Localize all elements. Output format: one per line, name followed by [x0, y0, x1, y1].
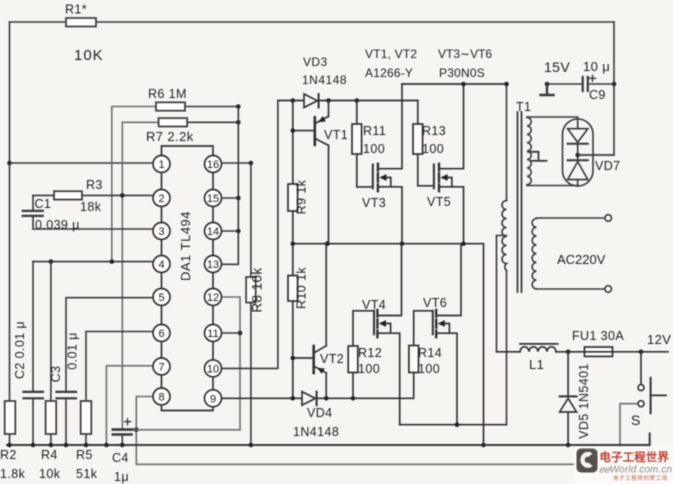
- wire pin 4 row: [33, 261, 153, 263]
- wire top rail from R1 to +15V corner: [10, 21, 615, 23]
- pin 9: [205, 390, 222, 407]
- wire primary center tap to L1: [497, 236, 507, 352]
- node rail VT3VT4: [400, 241, 405, 246]
- svg-text:100: 100: [422, 142, 444, 156]
- transformer T1 core: [518, 112, 522, 292]
- svg-text:14: 14: [207, 226, 219, 238]
- node VD7 center: [575, 153, 580, 158]
- transistor VT1: [313, 117, 316, 145]
- svg-text:电子工程师的梦工场: 电子工程师的梦工场: [613, 474, 668, 482]
- node switch branch: [639, 350, 644, 355]
- ground bus: [7, 434, 650, 446]
- node R4 top: [49, 259, 54, 264]
- wire R3 left lead: [33, 194, 54, 196]
- IC top outline: [162, 146, 214, 156]
- node VT2 emitter: [324, 396, 329, 401]
- wire VD4 row from pin 9: [222, 397, 303, 399]
- svg-text:VT6: VT6: [423, 296, 447, 310]
- svg-text:10K: 10K: [74, 47, 104, 64]
- svg-text:R1*: R1*: [65, 3, 87, 17]
- node rail R9R10: [291, 241, 296, 246]
- resistor R2: [9, 434, 11, 445]
- svg-text:10: 10: [207, 363, 219, 375]
- svg-text:8: 8: [158, 392, 164, 404]
- svg-text:A1266-Y: A1266-Y: [365, 66, 413, 80]
- wire pin 1 row: [10, 162, 154, 164]
- wire pin 6 row to R5: [86, 332, 153, 402]
- svg-text:L1: L1: [529, 357, 544, 372]
- transistor VT4: [373, 311, 375, 334]
- node VD5 top: [566, 350, 571, 355]
- wire R7 right lead: [187, 121, 238, 123]
- wire pin 12 riser: [222, 297, 241, 430]
- resistor R14: [414, 311, 432, 346]
- svg-text:R2: R2: [0, 448, 17, 462]
- svg-text:C9: C9: [589, 88, 606, 102]
- svg-text:R5: R5: [76, 448, 93, 462]
- pin 13: [205, 256, 222, 273]
- resistor R4: [50, 262, 52, 445]
- wire pin 15 stub: [222, 197, 239, 199]
- resistor R8: [250, 163, 252, 445]
- wire R3 right lead to pin 2: [82, 194, 154, 196]
- capacitor C9: [583, 77, 588, 91]
- svg-text:R3: R3: [86, 178, 103, 192]
- svg-text:15: 15: [207, 193, 219, 205]
- pin 4: [153, 256, 170, 273]
- svg-text:13: 13: [207, 259, 219, 271]
- terminal AC220V bottom: [605, 286, 612, 293]
- node R12 bottom: [351, 396, 356, 401]
- wire secondary top lead: [537, 217, 605, 219]
- wire R6 left vertical: [112, 107, 156, 262]
- node pin15 tie: [236, 196, 241, 201]
- wire pin 8 to C4 and supply: [136, 397, 153, 465]
- wire left bus vertical (pin1 / R2 net): [9, 22, 11, 401]
- svg-text:3: 3: [158, 226, 164, 238]
- svg-text:VT3∼VT6: VT3∼VT6: [438, 47, 492, 61]
- pin 15: [205, 190, 222, 207]
- svg-text:R7 2.2k: R7 2.2k: [146, 129, 194, 144]
- svg-text:VT3: VT3: [362, 196, 386, 210]
- wire right rail vertical to 15V: [578, 22, 614, 155]
- resistor R3: [54, 191, 82, 199]
- node bus C3: [64, 443, 69, 448]
- svg-text:1N4148: 1N4148: [293, 425, 339, 439]
- svg-text:12: 12: [207, 292, 219, 304]
- capacitor C1: [32, 195, 34, 229]
- op-amp U1 : IC DA1 TL494: [153, 146, 222, 411]
- svg-text:R9 1k: R9 1k: [295, 179, 309, 214]
- node rail VT5VT6: [461, 241, 466, 246]
- wire R6 right lead: [185, 106, 238, 108]
- wire source rail y243.7: [293, 244, 484, 445]
- svg-text:R10 1k: R10 1k: [295, 267, 309, 309]
- resistor R5: [85, 434, 87, 445]
- svg-text:C1: C1: [35, 197, 52, 211]
- svg-text:VD5 1N5401: VD5 1N5401: [577, 363, 591, 439]
- resistor R12: [353, 311, 373, 399]
- svg-text:VD4: VD4: [307, 406, 333, 420]
- node bus R2: [7, 443, 12, 448]
- IC right pin chain wires: [212, 173, 214, 390]
- svg-text:T1: T1: [516, 100, 531, 114]
- pin 3: [153, 223, 170, 240]
- wire pin 3 row: [33, 228, 154, 230]
- node VT5 drain: [461, 82, 466, 87]
- svg-text:9: 9: [210, 393, 216, 405]
- svg-text:10 μ: 10 μ: [583, 59, 610, 74]
- wire aux bottom to VD7: [527, 185, 578, 187]
- pin 12: [205, 289, 222, 306]
- svg-text:VT5: VT5: [427, 195, 451, 209]
- svg-text:R11: R11: [363, 124, 386, 138]
- svg-text:1.8k: 1.8k: [0, 467, 26, 481]
- svg-text:C2 0.01 μ: C2 0.01 μ: [13, 321, 27, 379]
- wire C4 top to pin12 riser: [134, 429, 240, 431]
- wire VD3 rail right: [319, 100, 418, 102]
- T1 primary winding: [502, 201, 507, 271]
- wire drain rail y84: [402, 83, 507, 85]
- svg-text:AC220V: AC220V: [557, 252, 606, 267]
- svg-text:0.039 μ: 0.039 μ: [35, 218, 80, 232]
- wire pin 14 stub: [222, 230, 239, 232]
- fuse FU1: [585, 347, 613, 356]
- watermark logo: [574, 447, 673, 484]
- capacitor C4: [113, 428, 135, 431]
- svg-text:5: 5: [158, 292, 164, 304]
- wire 15V rail: [547, 83, 614, 85]
- node R6 right: [236, 104, 241, 109]
- node bus R8: [249, 443, 254, 448]
- node rail VT1VT2: [325, 241, 330, 246]
- pin 6: [153, 325, 170, 342]
- pin 7: [153, 358, 170, 375]
- svg-text:VT2: VT2: [320, 352, 344, 366]
- T1 aux winding: [527, 118, 531, 185]
- wire net A vertical (pins 13,14,15): [222, 107, 239, 265]
- inductor L1: [520, 347, 556, 352]
- T1 secondary winding: [532, 219, 536, 289]
- resistor R11: [357, 101, 372, 187]
- svg-text:100: 100: [358, 362, 380, 376]
- svg-text:R6 1M: R6 1M: [148, 87, 187, 101]
- node bus C2: [31, 443, 36, 448]
- pin 8: [153, 388, 170, 405]
- svg-text:R8 10k: R8 10k: [250, 267, 265, 312]
- wire primary bottom lead: [506, 271, 508, 425]
- svg-text:VD3: VD3: [303, 55, 328, 69]
- svg-text:7: 7: [158, 362, 164, 374]
- wire lower source return y424.7: [400, 424, 507, 426]
- pin 10: [205, 360, 222, 377]
- svg-text:R12: R12: [358, 346, 382, 360]
- node bus VD5: [566, 443, 571, 448]
- diode VD3: [304, 94, 317, 108]
- diode VD5: [567, 352, 569, 445]
- wire VD3 rail left: [278, 100, 304, 102]
- node VT2 base: [291, 356, 296, 361]
- node pin14 tie: [236, 229, 241, 234]
- svg-text:R13: R13: [422, 124, 446, 138]
- diode VD4: [302, 392, 315, 406]
- node bus C4: [120, 443, 125, 448]
- node bus pin7: [104, 443, 109, 448]
- wire VD7 to 15V rail: [578, 154, 614, 156]
- node bus R5: [84, 443, 89, 448]
- svg-text:10k: 10k: [39, 467, 61, 481]
- terminal AC220V top: [605, 215, 612, 222]
- node VT1 base: [291, 128, 296, 133]
- aux winding tap: [528, 152, 547, 161]
- node R6 bottom: [110, 259, 115, 264]
- resistor R9: [292, 101, 294, 244]
- transistor VT3: [372, 165, 374, 189]
- svg-text:51k: 51k: [76, 467, 98, 481]
- pin 5: [153, 289, 170, 306]
- svg-text:100: 100: [363, 142, 385, 156]
- svg-text:VT1, VT2: VT1, VT2: [365, 47, 417, 61]
- resistor R13: [418, 101, 433, 186]
- resistor R6: [156, 102, 185, 110]
- node 15V ground junction: [545, 82, 550, 87]
- IC bottom outline: [162, 405, 214, 411]
- node pin1 junction: [7, 161, 12, 166]
- diode pack VD7: [563, 119, 594, 186]
- svg-text:FU1 30A: FU1 30A: [572, 329, 624, 343]
- svg-text:R14: R14: [418, 346, 442, 360]
- node pin 11 tie: [238, 331, 243, 336]
- ground 15V: [541, 84, 554, 95]
- transistor VT5: [433, 165, 435, 189]
- node R7 right: [236, 120, 241, 125]
- svg-text:R4: R4: [41, 448, 58, 462]
- wire pin 7 row to ground: [106, 366, 153, 445]
- wire primary top lead: [506, 84, 508, 201]
- node pin8 C4 junction: [134, 428, 139, 433]
- svg-text:P30N0S: P30N0S: [439, 66, 485, 80]
- svg-text:6: 6: [158, 328, 164, 340]
- svg-text:0.01 μ: 0.01 μ: [66, 332, 80, 369]
- resistor R7: [159, 118, 188, 126]
- pin 11: [205, 325, 222, 342]
- svg-text:DA1 TL494: DA1 TL494: [178, 211, 193, 281]
- resistor R1: [66, 18, 96, 27]
- svg-text:VD7: VD7: [595, 159, 621, 173]
- svg-text:1μ: 1μ: [114, 470, 129, 484]
- wire 12V feed: [497, 351, 669, 353]
- node bus source rail: [481, 443, 486, 448]
- svg-text:VT4: VT4: [362, 298, 386, 312]
- wire secondary bottom lead: [537, 288, 605, 290]
- svg-text:16: 16: [207, 159, 219, 171]
- svg-text:S: S: [631, 412, 641, 428]
- node pin16 R8: [249, 161, 254, 166]
- resistor R10: [292, 244, 294, 399]
- node VT6 source: [455, 422, 460, 427]
- svg-text:𝑒𝑒World.com.cn: 𝑒𝑒World.com.cn: [599, 465, 672, 476]
- capacitor C3: [65, 399, 67, 445]
- node R10 bottom: [291, 396, 296, 401]
- wire aux top to VD7: [527, 117, 578, 119]
- svg-text:C4: C4: [112, 451, 129, 465]
- node VT1 emitter: [326, 98, 331, 103]
- wire pin 5 row to C3: [66, 298, 153, 391]
- wire pin 16 stub: [222, 162, 251, 164]
- svg-text:11: 11: [207, 328, 218, 340]
- svg-text:1: 1: [158, 159, 164, 171]
- pin 1: [153, 156, 170, 173]
- transistor VT2: [312, 346, 315, 373]
- pin 2: [153, 190, 170, 207]
- node R3 pin2 junction: [120, 193, 125, 198]
- svg-text:2: 2: [158, 193, 164, 205]
- svg-text:18k: 18k: [80, 200, 102, 214]
- pin 16: [205, 156, 222, 173]
- wire switch to supply line: [620, 404, 638, 447]
- IC left pin chain wires: [161, 173, 163, 389]
- node 15V C9 junction: [612, 82, 617, 87]
- svg-text:100: 100: [418, 362, 440, 376]
- node bus R4: [49, 443, 54, 448]
- svg-text:C3: C3: [49, 366, 63, 383]
- switch S: [640, 352, 642, 385]
- node primary top: [504, 82, 509, 87]
- pin 14: [205, 223, 222, 240]
- svg-text:4: 4: [158, 259, 164, 271]
- svg-text:电子工程世界: 电子工程世界: [600, 450, 670, 464]
- capacitor C2: [32, 262, 34, 445]
- wire supply line bottom: [136, 463, 578, 465]
- svg-text:VT1: VT1: [324, 128, 348, 142]
- wire R7 left vertical down to C4: [122, 122, 158, 428]
- transistor VT6: [432, 311, 434, 334]
- svg-text:12V: 12V: [647, 332, 671, 347]
- svg-text:15V: 15V: [544, 59, 570, 75]
- wire pin 10 to VD3 rail: [222, 101, 278, 369]
- node R9 top: [291, 98, 296, 103]
- node R11 top: [355, 98, 360, 103]
- wire pin 11 stub: [222, 332, 241, 334]
- svg-text:1N4148: 1N4148: [302, 73, 347, 87]
